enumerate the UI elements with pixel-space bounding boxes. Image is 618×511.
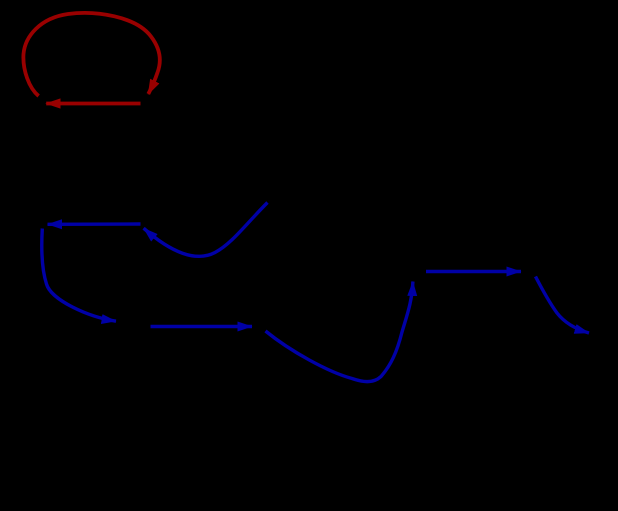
blue curve from upper right down to left arrow — [144, 203, 268, 257]
blue horizontal arrow pointing right (middle) — [151, 325, 253, 328]
blue horizontal arrow pointing left — [48, 222, 141, 226]
blue curve down from left then right — [42, 229, 116, 322]
red loop arrow (arc with arrowhead pointing down) — [23, 13, 159, 96]
blue swoop curve down and up to vertical arrowhead — [266, 282, 413, 382]
blue curve down-right with arrowhead — [536, 277, 590, 334]
blue horizontal arrow pointing right (upper right) — [426, 270, 521, 273]
red horizontal arrow pointing left — [46, 102, 140, 106]
